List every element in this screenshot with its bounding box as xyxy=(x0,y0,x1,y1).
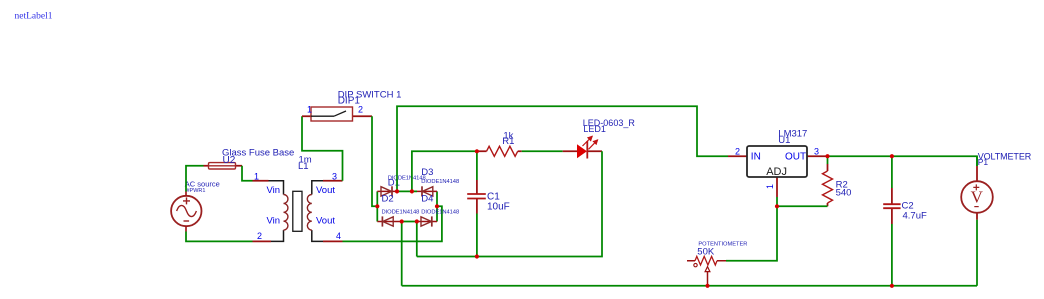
svg-text:#PWR1: #PWR1 xyxy=(187,188,206,194)
svg-text:D4: D4 xyxy=(421,194,433,205)
wire transformer pin 3 to DIP pin 1 xyxy=(302,116,343,181)
wire bridge top node to LM317 IN rail xyxy=(397,106,728,191)
svg-text:Vout: Vout xyxy=(316,216,335,227)
junction node C1 top xyxy=(475,149,479,153)
potentiometer 50K xyxy=(687,256,726,285)
svg-text:U2: U2 xyxy=(223,155,236,166)
junction node OUT xyxy=(825,154,829,158)
svg-text:ADJ: ADJ xyxy=(766,166,787,178)
svg-text:V: V xyxy=(971,188,984,207)
junction node ADJ xyxy=(775,204,779,208)
svg-text:4.7uF: 4.7uF xyxy=(903,210,927,221)
wire bottom rail xyxy=(402,285,977,287)
wire DIP pin 2 down to bridge left node xyxy=(372,116,377,206)
junction node bridge top 1 xyxy=(395,189,399,193)
svg-text:Vin: Vin xyxy=(266,216,280,227)
svg-text:IN: IN xyxy=(751,152,761,163)
svg-text:P1: P1 xyxy=(978,157,989,167)
wire bridge bottom node 1 to ground rail xyxy=(401,222,403,286)
wire transformer pin 4 to bridge right node xyxy=(343,206,442,241)
wire bridge top node 2 to R1 line xyxy=(412,151,477,191)
svg-text:U1: U1 xyxy=(778,135,790,146)
resistor R2 xyxy=(823,156,833,206)
wire R2 bottom to ADJ node xyxy=(777,205,828,207)
junction node C2 bottom xyxy=(890,284,894,288)
svg-text:LED1: LED1 xyxy=(583,124,606,134)
junction node C1 bottom xyxy=(475,254,479,258)
voltmeter P1 xyxy=(961,156,993,286)
svg-text:1: 1 xyxy=(765,184,775,189)
junction node bridge bottom 1 xyxy=(400,219,404,223)
svg-text:D2: D2 xyxy=(382,194,394,205)
diode D1 xyxy=(377,186,397,196)
wire OUT rail to voltmeter xyxy=(828,156,978,166)
junction node bridge top 2 xyxy=(410,189,414,193)
svg-text:netLabel1: netLabel1 xyxy=(15,12,53,22)
junction node bridge left xyxy=(375,204,379,208)
svg-text:DIODE1N4148: DIODE1N4148 xyxy=(382,209,420,215)
diode D3 xyxy=(417,186,437,196)
svg-text:2: 2 xyxy=(358,105,363,115)
junction node bridge bottom 2 xyxy=(415,219,419,223)
wire fuse to transformer pin 1 xyxy=(242,166,253,181)
regulator U1 LM317 xyxy=(728,146,828,206)
capacitor C2 xyxy=(883,156,900,286)
junction node wiper xyxy=(705,284,709,288)
wire bridge bottom node 2 down xyxy=(416,222,418,257)
svg-text:Vin: Vin xyxy=(266,185,280,196)
diode D4 xyxy=(417,216,437,226)
LED LED1 xyxy=(563,136,602,158)
wire AC top to fuse xyxy=(186,166,204,192)
svg-text:DIODE1N4148: DIODE1N4148 xyxy=(388,175,426,181)
diode D2 xyxy=(377,216,401,226)
svg-text:D3: D3 xyxy=(421,167,433,178)
wire AC bottom to transformer pin 2 xyxy=(186,232,253,242)
svg-text:1: 1 xyxy=(307,105,312,115)
DIP switch DIP1 xyxy=(302,107,372,121)
svg-text:50K: 50K xyxy=(697,246,715,257)
resistor R1 xyxy=(477,146,522,156)
bridge frame wire xyxy=(377,191,437,221)
AC source PWR1 xyxy=(171,192,201,232)
wire R1 to LED xyxy=(522,150,563,152)
svg-text:OUT: OUT xyxy=(785,152,806,163)
junction node C2 top xyxy=(890,154,894,158)
svg-text:Vout: Vout xyxy=(316,185,335,196)
wire LED cathode return xyxy=(417,151,602,256)
svg-text:10uF: 10uF xyxy=(487,201,510,212)
svg-text:3: 3 xyxy=(814,147,819,157)
svg-text:L1: L1 xyxy=(298,161,309,172)
fuse U2 xyxy=(204,163,243,169)
svg-text:3: 3 xyxy=(332,171,337,181)
svg-text:4: 4 xyxy=(336,231,341,241)
wire ADJ node down to potentiometer xyxy=(726,206,777,260)
svg-text:DIODE1N4148: DIODE1N4148 xyxy=(421,179,459,185)
svg-text:1: 1 xyxy=(254,171,259,181)
transformer L1 xyxy=(253,181,343,242)
svg-text:2: 2 xyxy=(257,231,262,241)
capacitor C1 xyxy=(467,151,486,256)
svg-text:540: 540 xyxy=(836,187,852,198)
svg-text:R1: R1 xyxy=(502,136,514,147)
svg-text:DIP1: DIP1 xyxy=(338,96,361,107)
junction node bridge right xyxy=(435,204,439,208)
svg-text:DIODE1N4148: DIODE1N4148 xyxy=(421,209,459,215)
svg-text:2: 2 xyxy=(735,147,740,157)
